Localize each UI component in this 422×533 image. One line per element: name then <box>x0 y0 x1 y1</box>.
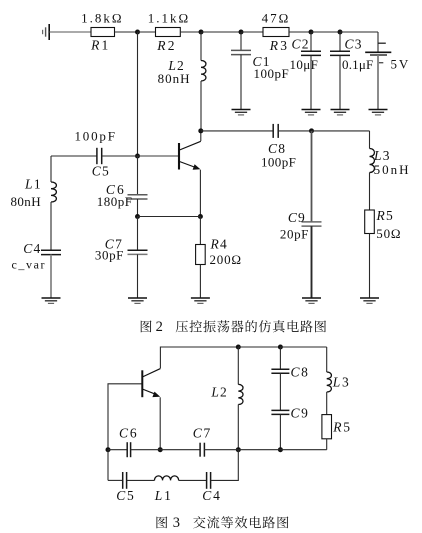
wire R5 to bottom rail (fig3) <box>326 439 328 450</box>
wire emitter node to C7 <box>160 449 200 451</box>
svg-text:2: 2 <box>156 319 163 335</box>
wire C5 to node A rail <box>102 155 138 157</box>
svg-text:5V: 5V <box>391 57 411 72</box>
inductor L3 (fig3) <box>327 372 332 392</box>
svg-text:30pF: 30pF <box>95 248 124 263</box>
wire C7 to L2 bottom <box>204 449 238 451</box>
svg-text:C7: C7 <box>193 426 212 441</box>
ground (C9 branch) <box>302 298 321 303</box>
svg-text:L3: L3 <box>373 148 391 163</box>
svg-text:C6: C6 <box>119 426 138 441</box>
svg-text:R1: R1 <box>90 37 110 52</box>
svg-text:c_var: c_var <box>12 258 47 272</box>
junction C8 top (fig3) <box>278 345 283 350</box>
svg-text:L2: L2 <box>210 384 228 399</box>
caption 图3 交流等效电路图 (hanzi) <box>156 516 288 528</box>
capacitor C5 <box>97 148 102 164</box>
wire C9 node to L3 corner <box>312 130 370 132</box>
svg-text:C2: C2 <box>292 37 310 52</box>
resistor R2 <box>156 28 181 37</box>
wire C1 node to R3 <box>241 31 263 33</box>
wire emitter down <box>159 397 161 449</box>
wire R1 to node A <box>115 31 138 33</box>
svg-text:1.8kΩ: 1.8kΩ <box>81 10 123 25</box>
junction emitter / C6 row <box>158 447 163 452</box>
svg-text:200Ω: 200Ω <box>210 252 242 267</box>
wire base to left rail <box>108 384 142 450</box>
wire L3 to R5 <box>369 173 371 211</box>
wire L3 top lead <box>369 131 371 149</box>
svg-text:50Ω: 50Ω <box>376 226 401 241</box>
wire top rail C8 to L3 <box>280 346 326 348</box>
svg-text:C9: C9 <box>288 210 306 225</box>
junction C3 top <box>338 30 343 35</box>
wire C7 to ground <box>137 254 139 298</box>
inductor L2 <box>201 61 206 81</box>
wire rail base row to C6 <box>137 156 139 195</box>
svg-text:100pF: 100pF <box>254 66 290 81</box>
svg-text:20pF: 20pF <box>280 227 309 242</box>
svg-text:R5: R5 <box>376 208 394 223</box>
resistor R5 (fig3) <box>322 415 332 439</box>
wire L2 top lead (fig3) <box>237 347 239 384</box>
svg-text:C4: C4 <box>202 488 221 503</box>
wire node A to base <box>138 155 179 157</box>
wire R3 to C2 node <box>289 31 311 33</box>
wire L2 bottom lead <box>200 81 202 131</box>
capacitor C7 <box>128 250 148 254</box>
svg-text:100pF: 100pF <box>75 129 117 144</box>
capacitor C4 (fig3) <box>207 472 211 489</box>
capacitor C7 (fig3) <box>200 443 204 457</box>
ground (battery) <box>369 110 388 115</box>
wire C5 corner down to L1 <box>50 156 52 182</box>
wire L3 top lead (fig3) <box>326 347 328 372</box>
junction base row / rail <box>135 154 140 159</box>
caption 图2 压控振荡器的仿真电路图 (hanzi) <box>141 320 326 332</box>
capacitor C9 (fig3) <box>271 410 289 414</box>
transistor Q2 (NPN) <box>142 369 160 398</box>
junction L2 top (fig3) <box>236 345 241 350</box>
svg-text:50nH: 50nH <box>374 162 411 177</box>
wire ground to R1 <box>49 31 91 33</box>
svg-text:C9: C9 <box>291 406 310 421</box>
wire C2 top lead <box>310 32 312 51</box>
ground (C7 branch) <box>128 298 147 303</box>
wire L2 bottom lead (fig3) <box>237 405 239 450</box>
wire C9 bottom to R5 corner <box>280 449 326 451</box>
ground (input, left) <box>43 24 50 40</box>
svg-text:1.1kΩ: 1.1kΩ <box>148 11 190 26</box>
wire battery bottom lead <box>377 55 379 110</box>
capacitor C6 <box>128 195 148 199</box>
transistor Q1 (NPN) <box>179 141 201 170</box>
wire R5 to ground <box>369 234 371 299</box>
inductor L1 <box>51 182 56 202</box>
svg-text:100pF: 100pF <box>261 155 296 170</box>
wire C8 top lead (fig3) <box>279 347 281 369</box>
junction emitter node <box>198 214 203 219</box>
wire C1 bottom lead <box>240 55 242 110</box>
wire collector up to top rail <box>160 347 238 368</box>
wire C6 to emitter node <box>131 449 161 451</box>
wire node A down to base row <box>137 32 139 156</box>
wire C3 top lead <box>339 32 341 51</box>
inductor L1 (fig3) <box>155 476 179 481</box>
wire collector to C8 <box>201 130 273 132</box>
battery V1 5V <box>365 52 391 62</box>
battery plus sign <box>378 42 386 44</box>
wire C3 bottom lead <box>339 55 341 109</box>
wire emitter lead <box>199 170 201 217</box>
capacitor C2 <box>301 51 321 55</box>
wire collector lead <box>200 131 202 141</box>
wire C5 to L1 <box>127 479 155 481</box>
wire emitter row (rail to emitter) <box>138 216 201 218</box>
wire C2 node to C3 node <box>311 31 340 33</box>
svg-text:180pF: 180pF <box>97 194 133 209</box>
capacitor C4 <box>41 250 61 254</box>
svg-text:L1: L1 <box>154 488 173 503</box>
capacitor C8 <box>273 124 278 138</box>
wire C6 to emitter row <box>137 199 139 217</box>
svg-text:0.1μF: 0.1μF <box>342 57 373 72</box>
resistor R5 <box>365 210 375 234</box>
svg-text:R4: R4 <box>210 237 228 252</box>
svg-text:C4: C4 <box>23 241 41 256</box>
wire L2 top lead <box>200 32 202 61</box>
wire C2 bottom lead <box>310 55 312 109</box>
wire C5 row left segment <box>108 479 123 481</box>
svg-text:C8: C8 <box>291 365 310 380</box>
svg-text:C5: C5 <box>92 164 110 179</box>
wire L2 bottom to C9 bottom <box>238 449 280 451</box>
inductor L2 (fig3) <box>238 384 243 404</box>
svg-text:R5: R5 <box>332 420 352 435</box>
wire top rail L2 to C8 <box>238 346 280 348</box>
wire rail emitter row to C7 <box>137 217 139 251</box>
svg-text:10μF: 10μF <box>290 57 319 72</box>
svg-text:80nH: 80nH <box>11 194 42 209</box>
junction emitter row / rail <box>135 214 140 219</box>
ground (C1) <box>232 110 251 115</box>
svg-text:80nH: 80nH <box>158 71 191 86</box>
capacitor C8 (fig3) <box>271 369 289 373</box>
svg-text:C3: C3 <box>345 37 363 52</box>
junction L2 top <box>199 30 204 35</box>
node A junction (R1/R2/rail) <box>135 30 140 35</box>
wire C6 row left segment <box>108 449 127 451</box>
junction left rail / C6 row <box>106 447 111 452</box>
svg-text:L1: L1 <box>24 176 42 191</box>
capacitor C9 <box>302 222 322 226</box>
ground (C4 branch) <box>42 298 61 303</box>
capacitor C1 <box>231 50 251 54</box>
wire L2 node to C1 node <box>201 31 241 33</box>
wire C4 to ground <box>50 255 52 298</box>
svg-text:L3: L3 <box>332 374 351 389</box>
wire R4 to ground <box>199 265 201 299</box>
junction C2 top <box>309 30 314 35</box>
wire C1 top lead <box>240 32 242 50</box>
wire battery top lead <box>377 32 379 52</box>
junction L2 bottom (fig3) <box>236 447 241 452</box>
junction C9 top <box>309 128 314 133</box>
wire C9 top lead <box>311 131 313 222</box>
capacitor C6 (fig3) <box>127 442 130 457</box>
wire R2 to L2 node <box>180 31 201 33</box>
wire C3 node to battery <box>340 31 378 33</box>
ground (C3) <box>331 110 350 115</box>
svg-text:3: 3 <box>173 515 180 531</box>
svg-text:R3: R3 <box>269 38 289 53</box>
wire L1 to C4 <box>50 202 52 250</box>
wire C4 to L2 column <box>211 450 239 481</box>
wire C9 bottom lead (fig3) <box>279 414 281 449</box>
wire C8 to C9 node <box>278 130 311 132</box>
resistor R3 <box>263 28 289 37</box>
inductor L3 <box>370 149 375 173</box>
wire C8-C9 link (fig3) <box>279 373 281 410</box>
wire L1 to C4 <box>179 479 207 481</box>
resistor R4 <box>196 245 206 265</box>
capacitor C3 <box>330 51 350 55</box>
capacitor C5 (fig3) <box>123 472 127 489</box>
wire emitter to R4 <box>199 217 201 245</box>
ground (R5 branch) <box>360 298 379 303</box>
junction C1 top <box>239 30 244 35</box>
wire node A to R2 <box>138 31 156 33</box>
wire left rail to C5 row <box>107 450 109 481</box>
junction C9 bottom (fig3) <box>278 447 283 452</box>
junction collector node <box>198 128 203 133</box>
svg-text:R2: R2 <box>156 38 176 53</box>
svg-text:C5: C5 <box>116 488 135 503</box>
wire L1 corner to C5 <box>51 155 97 157</box>
ground (C2) <box>302 110 321 115</box>
wire L3 to R5 (fig3) <box>326 392 328 415</box>
svg-text:47Ω: 47Ω <box>262 10 291 25</box>
ground (R4 branch) <box>191 298 210 303</box>
wire C9 bottom lead <box>311 226 313 298</box>
resistor R1 <box>91 28 115 37</box>
